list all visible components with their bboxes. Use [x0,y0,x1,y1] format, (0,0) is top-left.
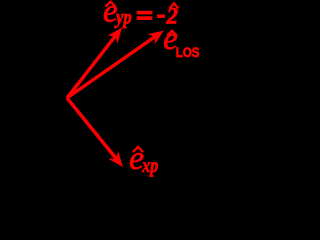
svg-text:xp: xp [141,154,158,176]
svg-text:LOS: LOS [176,45,200,60]
svg-text:yp: yp [114,6,131,28]
